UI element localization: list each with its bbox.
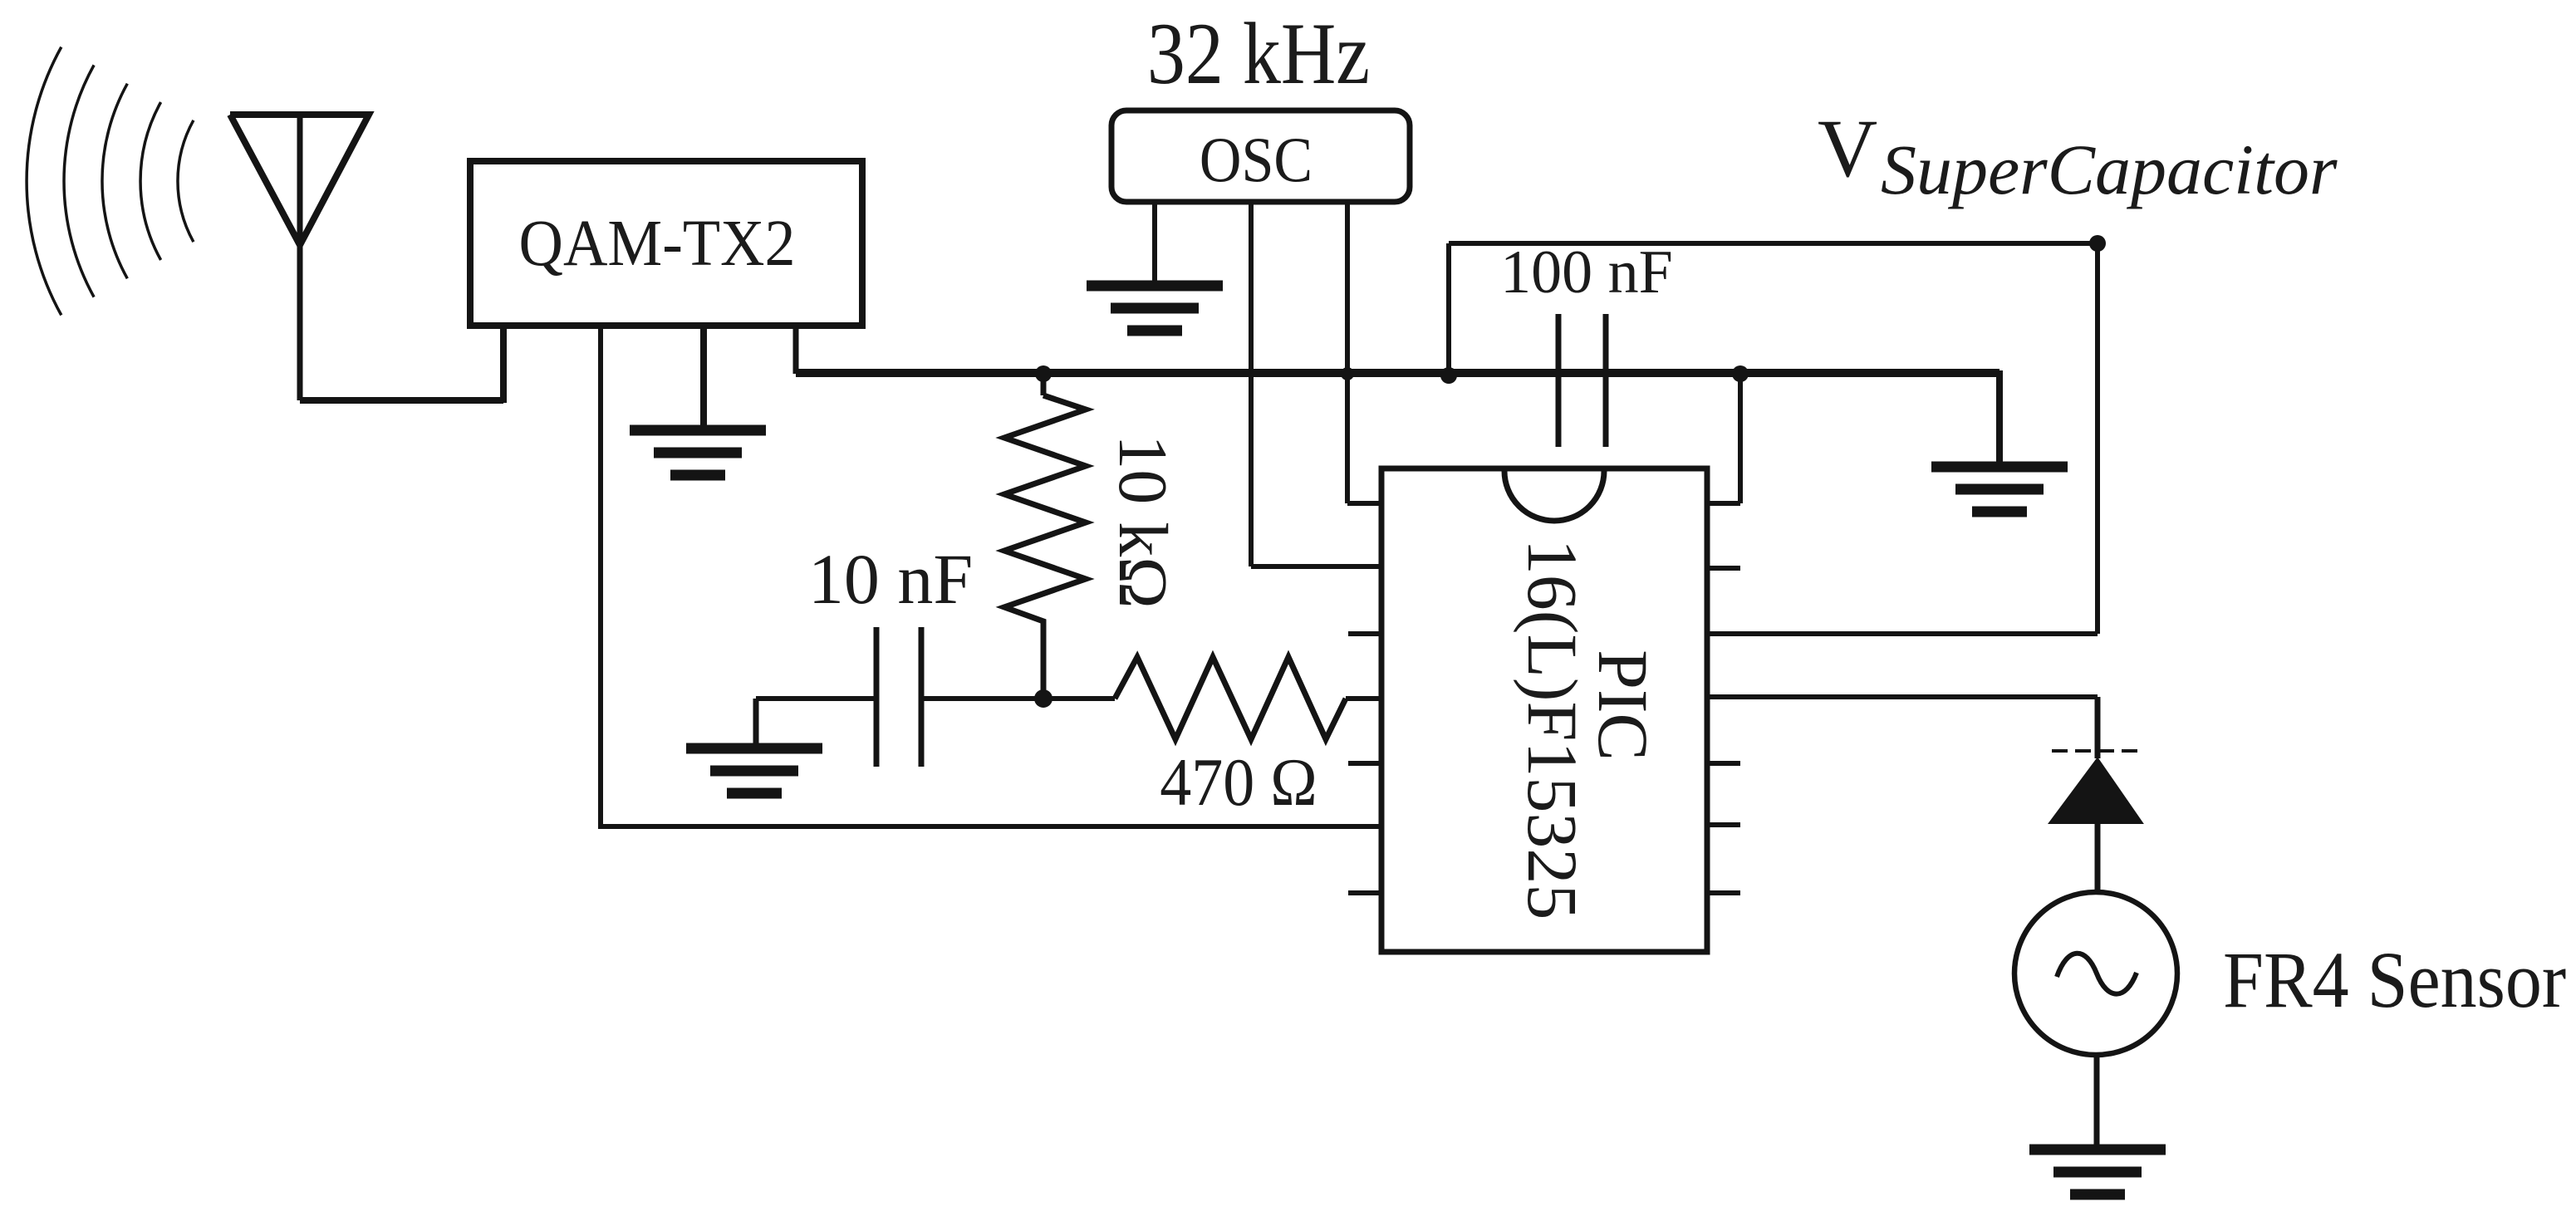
ground (10 nF) xyxy=(686,748,822,793)
PIC right pin stubs xyxy=(1707,568,1740,893)
wire PIC to sensor xyxy=(1707,697,2098,758)
wire sensor to ground xyxy=(2094,1055,2100,1146)
wire bus to right ground xyxy=(1996,370,2003,462)
svg-text:FR4 Sensor: FR4 Sensor xyxy=(2223,936,2566,1025)
wire to V node xyxy=(1449,241,2098,246)
wire OSC pin3 to PIC xyxy=(1347,202,1381,503)
wire bus to PIC xyxy=(1707,374,1740,503)
node bus-C2 xyxy=(1440,367,1457,384)
source FR4 Sensor xyxy=(2014,892,2566,1055)
svg-text:V: V xyxy=(1818,102,1877,194)
ground (sensor) xyxy=(2029,1150,2166,1194)
ground (bus right) xyxy=(1931,467,2068,512)
wire QAM-TX2 ground pin xyxy=(700,326,707,427)
supply bus wire xyxy=(796,369,1999,377)
PIC left pin stubs xyxy=(1348,634,1381,893)
capacitor C2 100 nF xyxy=(1449,238,1673,447)
ground (QAM-TX2) xyxy=(630,430,766,475)
antenna xyxy=(230,115,369,400)
resistor R2 470 &#937; xyxy=(1043,657,1381,821)
node V_SuperCapacitor xyxy=(2089,235,2106,252)
resistor R1 10 k&#937; xyxy=(1004,374,1181,699)
ground (OSC) xyxy=(1087,286,1223,331)
block OSC xyxy=(1111,110,1410,202)
svg-text:32 kHz: 32 kHz xyxy=(1147,6,1370,102)
node bus-R1 xyxy=(1035,365,1052,382)
svg-text:QAM-TX2: QAM-TX2 xyxy=(519,205,796,279)
wire QAM-TX2 pin to bus xyxy=(793,326,799,374)
block QAM-TX2 xyxy=(470,161,862,326)
wire QAM-TX2 to PIC pin xyxy=(598,326,1381,826)
node bus-OSC xyxy=(1341,367,1354,380)
svg-text:10 nF: 10 nF xyxy=(808,539,973,619)
svg-text:SuperCapacitor: SuperCapacitor xyxy=(1881,130,2338,209)
wire antenna to QAM-TX2 xyxy=(300,326,503,403)
label V_SuperCapacitor xyxy=(1818,102,2338,209)
op-amp U1 PIC16(L)F15325 xyxy=(1381,468,1707,952)
svg-text:470 Ω: 470 Ω xyxy=(1160,745,1317,820)
svg-text:100 nF: 100 nF xyxy=(1500,238,1673,306)
node R1-C1-R2 xyxy=(1034,689,1052,708)
node bus-PIC xyxy=(1732,365,1749,382)
svg-text:OSC: OSC xyxy=(1200,124,1313,195)
wire OSC pin2 to PIC xyxy=(1251,202,1381,566)
capacitor C1 10 nF xyxy=(756,539,1043,767)
antenna radio waves xyxy=(27,47,194,316)
label 32 kHz xyxy=(1147,6,1370,102)
svg-text:10 kΩ: 10 kΩ xyxy=(1104,434,1181,608)
diode D1 xyxy=(2049,751,2142,893)
wire V node down to PIC xyxy=(1707,243,2098,634)
wire OSC pin1 xyxy=(1152,202,1157,282)
